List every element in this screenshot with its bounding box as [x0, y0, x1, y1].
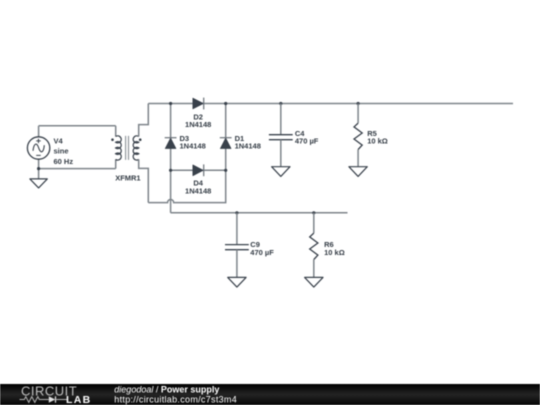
node: V4 ground junction — [37, 167, 40, 170]
wire: primary top stem — [115, 126, 117, 137]
resistor R5 — [354, 123, 362, 149]
wire: bottom rail — [171, 212, 348, 214]
ground: under C9 — [228, 277, 246, 287]
wire: AC2 horizontal with hop over left column — [148, 170, 225, 202]
wire: secondary bottom to bridge — [139, 159, 149, 202]
node: C4 junction — [279, 102, 282, 105]
wire: bridge bottom row — [171, 169, 226, 171]
ground: under R6 — [305, 277, 323, 287]
transformer XFMR1 primary winding — [116, 136, 122, 160]
wire: top rail — [148, 103, 513, 105]
node: R6 junction — [312, 211, 315, 214]
node: C9 junction — [235, 211, 238, 214]
wire: primary bottom stem — [115, 159, 117, 168]
wire: bridge right column — [225, 104, 227, 171]
wire: bridge left column — [170, 104, 172, 213]
transformer phase dot left — [111, 138, 114, 141]
node: bridge top-right — [224, 102, 227, 105]
footer credit text — [0, 0, 300, 405]
ground: under C4 — [272, 167, 290, 177]
transformer core — [126, 136, 129, 160]
wire: V4 ground stem — [38, 169, 40, 179]
wire: R6 top stem — [313, 213, 315, 233]
capacitor C9 — [225, 245, 249, 250]
capacitor C4 — [269, 135, 293, 140]
wire: secondary top stem — [139, 104, 149, 137]
wire: V4 loop bottom horizontal — [39, 168, 116, 170]
voltage source V4 — [27, 137, 49, 159]
wire: V4 bottom stem — [38, 159, 40, 168]
node: bridge bottom-left — [169, 169, 172, 172]
ground: under V4 — [30, 179, 47, 188]
wire: C9 top stem — [236, 213, 238, 245]
diode D4 — [193, 165, 203, 176]
wire: R5 top stem — [357, 104, 359, 124]
CircuitLab logo — [0, 384, 110, 405]
wire: V4 top stem — [38, 126, 40, 137]
svg-text:http://circuitlab.com/c7st3m4: http://circuitlab.com/c7st3m4 — [114, 394, 237, 404]
node: R5 junction — [357, 102, 360, 105]
diode D3 — [165, 138, 176, 148]
resistor R6 — [310, 233, 318, 259]
wire: C9 bottom stem — [236, 250, 238, 278]
svg-text:10 kΩ: 10 kΩ — [324, 248, 345, 257]
ground: under R5 — [349, 167, 367, 177]
wire: R6 bottom stem — [313, 260, 315, 278]
wire: V4 loop top horizontal — [39, 125, 116, 127]
wire: R5 bottom stem — [357, 150, 359, 167]
svg-text:10 kΩ: 10 kΩ — [367, 137, 388, 146]
wire: C4 bottom stem — [280, 140, 282, 167]
transformer XFMR1 secondary winding — [133, 136, 139, 160]
footer black bar — [0, 384, 540, 405]
node: bridge bottom-right — [224, 169, 227, 172]
node: bridge top-left — [169, 102, 172, 105]
diode D2 — [193, 98, 203, 109]
wire: C4 top stem — [280, 104, 282, 135]
svg-text:diegodoal / Power supply: diegodoal / Power supply — [114, 384, 219, 394]
diode D1 — [220, 138, 231, 148]
transformer phase dot right — [139, 138, 142, 141]
